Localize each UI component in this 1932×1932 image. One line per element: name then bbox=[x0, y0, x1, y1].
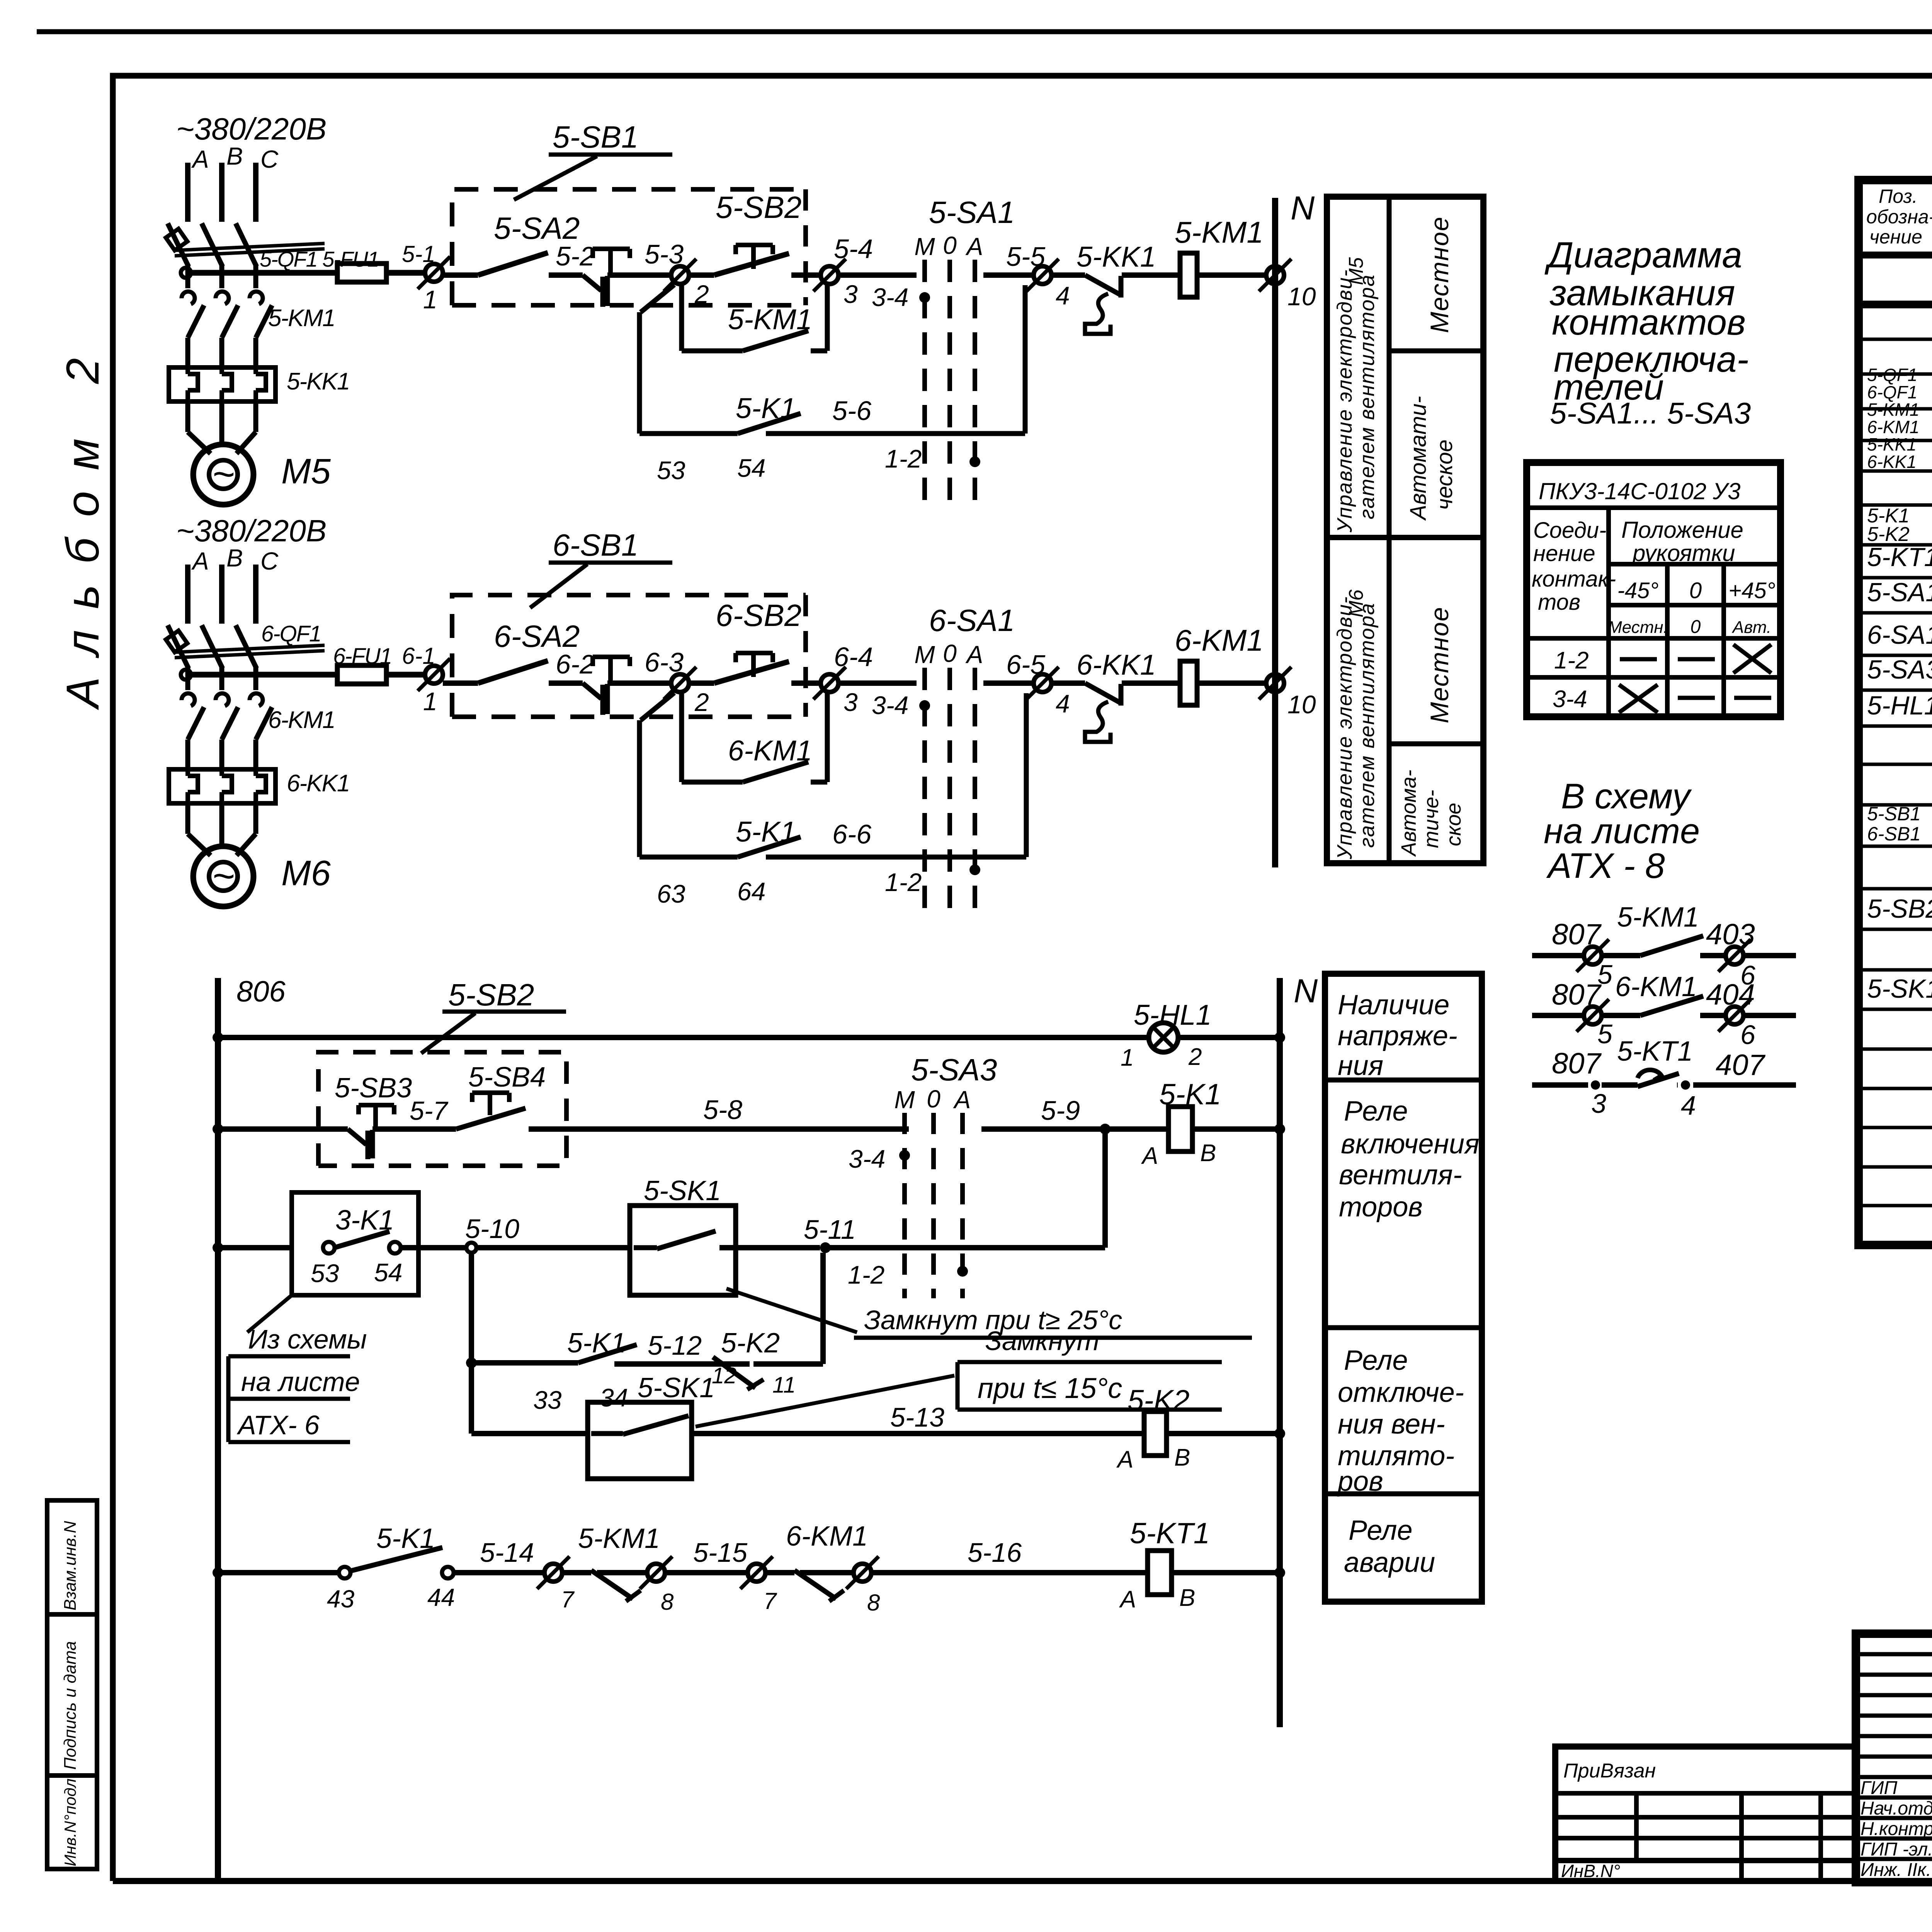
svg-text:4: 4 bbox=[1056, 281, 1070, 310]
svg-text:5-6: 5-6 bbox=[832, 396, 871, 426]
svg-text:ния вен-: ния вен- bbox=[1338, 1409, 1445, 1440]
svg-text:7: 7 bbox=[561, 1587, 575, 1612]
svg-text:А: А bbox=[953, 1086, 971, 1114]
svg-text:6-2: 6-2 bbox=[556, 649, 595, 679]
svg-text:Альбом 2: Альбом 2 bbox=[57, 337, 109, 710]
svg-text:5-SB2: 5-SB2 bbox=[1867, 894, 1932, 923]
svg-text:М5: М5 bbox=[1345, 257, 1367, 285]
svg-text:Реле: Реле bbox=[1344, 1096, 1408, 1127]
svg-text:403: 403 bbox=[1706, 918, 1755, 951]
svg-text:ИнВ.N°: ИнВ.N° bbox=[1561, 1861, 1620, 1881]
svg-text:5-KK1: 5-KK1 bbox=[1077, 241, 1156, 273]
svg-text:2: 2 bbox=[694, 280, 709, 308]
svg-text:6-QF1: 6-QF1 bbox=[261, 621, 321, 646]
svg-text:Автома-: Автома- bbox=[1397, 770, 1420, 857]
interlock contact 5-K1 (53-54) bbox=[641, 285, 674, 312]
svg-text:3-4: 3-4 bbox=[849, 1145, 885, 1173]
svg-text:10: 10 bbox=[1287, 282, 1316, 311]
svg-text:Реле: Реле bbox=[1344, 1345, 1408, 1376]
control post 6-SB1 enclosure (dashed) bbox=[452, 595, 806, 717]
svg-text:5-SA1... 5-SA3: 5-SA1... 5-SA3 bbox=[1550, 396, 1751, 430]
svg-text:5-7: 5-7 bbox=[410, 1096, 448, 1126]
svg-text:33: 33 bbox=[533, 1386, 562, 1414]
svg-text:рукоятки: рукоятки bbox=[1632, 540, 1735, 566]
svg-text:гателем вентилятора: гателем вентилятора bbox=[1355, 274, 1379, 519]
remote contact 3-K1 (from sheet ATX-6) bbox=[292, 1192, 418, 1295]
svg-text:Поз.: Поз. bbox=[1879, 185, 1918, 207]
svg-text:8: 8 bbox=[867, 1590, 880, 1616]
svg-text:5-12: 5-12 bbox=[648, 1330, 702, 1361]
svg-text:5-8: 5-8 bbox=[703, 1095, 742, 1125]
header row bbox=[1859, 252, 1932, 259]
svg-text:5-13: 5-13 bbox=[890, 1402, 944, 1432]
sheet top border bbox=[37, 29, 1932, 34]
svg-text:6-SA1,: 6-SA1, bbox=[1867, 620, 1932, 650]
annotation 'Замкнут при t<=15C' bbox=[696, 1376, 954, 1427]
svg-text:7: 7 bbox=[764, 1588, 777, 1614]
svg-text:N: N bbox=[1294, 973, 1318, 1010]
svg-text:Наличие: Наличие bbox=[1338, 990, 1449, 1020]
pushbutton 6-SB1 (NC) bbox=[583, 683, 601, 699]
svg-text:6-4: 6-4 bbox=[834, 642, 873, 672]
wire 6-3 bbox=[607, 680, 671, 686]
motor M5 bbox=[193, 444, 253, 505]
svg-text:Местное: Местное bbox=[1425, 606, 1454, 723]
wires to motor M6 bbox=[185, 803, 190, 834]
svg-text:53: 53 bbox=[657, 456, 685, 485]
svg-text:ГИП: ГИП bbox=[1861, 1778, 1897, 1798]
svg-text:торов: торов bbox=[1339, 1192, 1423, 1223]
svg-text:64: 64 bbox=[737, 877, 765, 906]
svg-text:5-KT1: 5-KT1 bbox=[1617, 1036, 1693, 1067]
svg-text:5-SK1: 5-SK1 bbox=[638, 1372, 715, 1403]
svg-text:11: 11 bbox=[772, 1372, 796, 1398]
svg-text:3: 3 bbox=[844, 688, 858, 716]
svg-text:6-KK1: 6-KK1 bbox=[1867, 452, 1917, 472]
node 4 bbox=[1034, 674, 1051, 692]
svg-text:тиче-: тиче- bbox=[1420, 790, 1443, 848]
svg-text:А: А bbox=[1116, 1446, 1133, 1473]
svg-text:5-KM1: 5-KM1 bbox=[1617, 902, 1699, 933]
wire 5-1 bbox=[386, 270, 425, 276]
svg-text:6-SB1: 6-SB1 bbox=[1867, 823, 1921, 845]
N bus (ladder) bbox=[1277, 978, 1283, 1727]
svg-text:ПКУ3-14С-0102 У3: ПКУ3-14С-0102 У3 bbox=[1539, 478, 1740, 504]
svg-text:В: В bbox=[226, 544, 243, 572]
svg-text:3-4: 3-4 bbox=[872, 283, 908, 311]
svg-text:Взам.инв.N: Взам.инв.N bbox=[61, 1521, 80, 1611]
circuit breaker 5-QF1 bbox=[168, 223, 189, 267]
node 3 bbox=[821, 674, 838, 692]
svg-text:5-11: 5-11 bbox=[804, 1214, 856, 1245]
svg-text:включения: включения bbox=[1341, 1129, 1480, 1160]
svg-text:6-KM1: 6-KM1 bbox=[268, 707, 335, 733]
svg-text:6-SA2: 6-SA2 bbox=[494, 619, 580, 653]
wire 5-3 bbox=[607, 272, 671, 278]
svg-text:5-K1: 5-K1 bbox=[736, 392, 796, 424]
svg-text:5-KM1: 5-KM1 bbox=[728, 303, 812, 335]
svg-text:~: ~ bbox=[212, 854, 235, 898]
svg-text:на листе: на листе bbox=[241, 1367, 360, 1397]
svg-text:1-2: 1-2 bbox=[1554, 647, 1589, 674]
parts table row lines bbox=[1859, 338, 1932, 341]
phase C wire bbox=[253, 163, 259, 222]
svg-text:вентиля-: вентиля- bbox=[1339, 1160, 1462, 1190]
svg-text:5-KM1: 5-KM1 bbox=[1175, 215, 1264, 249]
svg-text:54: 54 bbox=[374, 1258, 402, 1287]
interlock contact 5-K1 (63-64) bbox=[641, 693, 674, 720]
node 1 bbox=[425, 666, 443, 684]
control post 5-SB1 enclosure (dashed) bbox=[452, 189, 806, 305]
svg-text:5-KT1: 5-KT1 bbox=[1130, 1517, 1210, 1550]
svg-text:404: 404 bbox=[1706, 978, 1755, 1011]
svg-text:Замкнут: Замкнут bbox=[985, 1326, 1099, 1356]
svg-text:5-SK1: 5-SK1 bbox=[644, 1175, 721, 1206]
svg-text:6-KM1: 6-KM1 bbox=[728, 735, 812, 767]
svg-text:В: В bbox=[1174, 1444, 1190, 1471]
note box 'Из схемы на листе АТХ-6' bbox=[247, 1295, 292, 1332]
signature table row lines bbox=[1856, 1652, 1932, 1656]
svg-text:63: 63 bbox=[657, 879, 685, 908]
auxiliary contact 5-KM1 (self-hold) bbox=[679, 284, 684, 351]
svg-text:5-SB2: 5-SB2 bbox=[448, 978, 534, 1012]
svg-text:А: А bbox=[965, 233, 983, 260]
svg-text:Положение: Положение bbox=[1621, 517, 1743, 543]
svg-text:34: 34 bbox=[600, 1383, 628, 1412]
svg-text:1: 1 bbox=[423, 687, 437, 716]
svg-text:A: A bbox=[191, 145, 209, 173]
circuit breaker 6-QF1 bbox=[168, 625, 189, 668]
svg-text:5-4: 5-4 bbox=[834, 234, 873, 264]
svg-text:5-SA2: 5-SA2 bbox=[494, 211, 580, 245]
svg-text:1-2: 1-2 bbox=[848, 1260, 884, 1289]
feeder wire to fuse 5-FU1 bbox=[181, 268, 191, 278]
svg-text:2: 2 bbox=[1188, 1044, 1202, 1070]
svg-text:Авт.: Авт. bbox=[1731, 618, 1771, 637]
svg-text:M5: M5 bbox=[281, 452, 331, 491]
svg-text:5-SA3: 5-SA3 bbox=[911, 1053, 997, 1087]
svg-text:~: ~ bbox=[212, 452, 235, 496]
svg-text:Подпись и дата: Подпись и дата bbox=[61, 1641, 80, 1770]
table outer border bbox=[1859, 180, 1932, 1245]
svg-text:1-2: 1-2 bbox=[885, 868, 922, 896]
rung 2: relay 5-K1 pick-up bbox=[213, 1124, 223, 1134]
svg-text:А: А bbox=[1141, 1143, 1158, 1169]
svg-text:43: 43 bbox=[327, 1585, 355, 1613]
svg-text:Соеди-: Соеди- bbox=[1533, 518, 1606, 543]
margin box 'Подпись и дата' bbox=[47, 1614, 97, 1776]
phase A wire bbox=[185, 163, 190, 222]
svg-text:1: 1 bbox=[423, 285, 437, 314]
svg-text:аварии: аварии bbox=[1344, 1547, 1435, 1578]
svg-text:М: М bbox=[914, 641, 935, 668]
svg-text:806: 806 bbox=[236, 975, 286, 1008]
svg-text:5-SA1: 5-SA1 bbox=[929, 195, 1015, 230]
node 2 bbox=[671, 266, 689, 284]
svg-text:Реле: Реле bbox=[1349, 1515, 1413, 1546]
svg-text:А: А bbox=[965, 641, 983, 668]
svg-text:Нач.отд.: Нач.отд. bbox=[1861, 1798, 1932, 1819]
svg-text:4: 4 bbox=[1056, 689, 1070, 718]
phase B wire bbox=[219, 163, 224, 222]
svg-text:1: 1 bbox=[1121, 1044, 1134, 1071]
svg-text:АТХ - 8: АТХ - 8 bbox=[1546, 846, 1665, 886]
svg-text:6-KM1: 6-KM1 bbox=[1175, 623, 1264, 657]
node 4 bbox=[1034, 266, 1051, 284]
svg-text:6-SB1: 6-SB1 bbox=[553, 528, 638, 562]
svg-text:5-KM1: 5-KM1 bbox=[578, 1523, 660, 1554]
svg-text:5-10: 5-10 bbox=[465, 1214, 519, 1244]
svg-text:напряже-: напряже- bbox=[1338, 1020, 1458, 1051]
margin box 'Инв.N подл.' bbox=[47, 1776, 97, 1869]
auxiliary contact 6-KM1 (self-hold) bbox=[679, 692, 684, 782]
wires to motor M5 bbox=[185, 401, 190, 432]
svg-text:5-16: 5-16 bbox=[968, 1537, 1022, 1568]
svg-text:0: 0 bbox=[927, 1085, 940, 1113]
margin box 'Взам.инв.N' bbox=[47, 1500, 97, 1614]
svg-text:N: N bbox=[1291, 190, 1315, 227]
svg-text:3-4: 3-4 bbox=[872, 691, 908, 719]
svg-text:6-KM1: 6-KM1 bbox=[1615, 971, 1697, 1002]
table grid bbox=[1606, 508, 1611, 717]
svg-text:5-HL1: 5-HL1 bbox=[1867, 691, 1932, 720]
svg-text:ПриВязан: ПриВязан bbox=[1563, 1760, 1656, 1782]
svg-text:8: 8 bbox=[661, 1589, 674, 1615]
svg-text:В: В bbox=[1179, 1585, 1195, 1611]
svg-text:6-SA1: 6-SA1 bbox=[929, 603, 1015, 638]
svg-text:Управление электродви-: Управление электродви- bbox=[1333, 596, 1356, 860]
phase C wire bbox=[253, 565, 259, 624]
svg-text:5-K1: 5-K1 bbox=[736, 816, 796, 848]
annotation 'Замкнут при t>=25C' bbox=[726, 1289, 857, 1332]
svg-text:Местн.: Местн. bbox=[1608, 618, 1668, 637]
svg-text:нение: нение bbox=[1533, 541, 1595, 566]
svg-text:5-SB4: 5-SB4 bbox=[468, 1062, 546, 1093]
bus 806 bbox=[215, 978, 221, 1881]
svg-text:407: 407 bbox=[1716, 1049, 1766, 1082]
svg-text:А: А bbox=[1119, 1586, 1136, 1613]
svg-text:5-KK1: 5-KK1 bbox=[287, 368, 349, 395]
rung 5: alarm relay 5-KT1 bbox=[213, 1567, 223, 1578]
svg-text:6-6: 6-6 bbox=[832, 819, 871, 849]
svg-text:+45°: +45° bbox=[1728, 578, 1776, 603]
svg-text:12: 12 bbox=[712, 1363, 737, 1388]
svg-text:3: 3 bbox=[844, 280, 858, 308]
svg-text:ское: ское bbox=[1442, 803, 1465, 846]
svg-text:4: 4 bbox=[1681, 1090, 1696, 1121]
svg-text:АТХ- 6: АТХ- 6 bbox=[236, 1410, 320, 1440]
contactor main contacts 5-KM1 bbox=[182, 292, 195, 304]
svg-text:0: 0 bbox=[1690, 617, 1701, 637]
svg-text:1-2: 1-2 bbox=[885, 444, 922, 473]
svg-text:M6: M6 bbox=[281, 854, 331, 893]
svg-text:чение: чение bbox=[1869, 226, 1922, 248]
svg-text:6: 6 bbox=[1740, 1020, 1755, 1050]
svg-text:807: 807 bbox=[1552, 1047, 1602, 1080]
svg-text:Инв.N°подл.: Инв.N°подл. bbox=[61, 1774, 79, 1866]
svg-text:контак-: контак- bbox=[1532, 566, 1616, 592]
svg-text:~380/220В: ~380/220В bbox=[176, 112, 327, 146]
svg-text:53: 53 bbox=[311, 1259, 339, 1287]
svg-text:М: М bbox=[894, 1086, 915, 1114]
svg-text:5-QF1 5-FU1: 5-QF1 5-FU1 bbox=[260, 247, 379, 271]
svg-text:ния: ния bbox=[1338, 1050, 1383, 1081]
svg-text:5-SA3: 5-SA3 bbox=[1867, 655, 1932, 684]
phase A wire bbox=[185, 565, 190, 624]
svg-text:5-K2: 5-K2 bbox=[721, 1328, 780, 1359]
svg-text:обозна-: обозна- bbox=[1866, 206, 1932, 228]
svg-text:гателем вентилятора: гателем вентилятора bbox=[1355, 602, 1379, 848]
panel frame bbox=[1327, 197, 1483, 863]
feeder wire to fuse 6-FU1 bbox=[181, 670, 191, 680]
contactor main contacts 6-KM1 bbox=[182, 694, 195, 706]
svg-text:2: 2 bbox=[694, 688, 709, 716]
svg-text:~380/220В: ~380/220В bbox=[176, 514, 327, 548]
svg-text:5-9: 5-9 bbox=[1041, 1095, 1080, 1126]
svg-text:Управление электродви-: Управление электродви- bbox=[1333, 269, 1356, 533]
svg-text:5-SB3: 5-SB3 bbox=[335, 1073, 412, 1104]
thermal relay 5-KK1 bbox=[169, 367, 276, 401]
svg-text:A: A bbox=[191, 547, 209, 575]
svg-text:5-K1: 5-K1 bbox=[567, 1328, 626, 1359]
svg-text:5-SB2: 5-SB2 bbox=[716, 190, 801, 224]
phase B wire bbox=[219, 565, 224, 624]
svg-text:Инж. IIк.: Инж. IIк. bbox=[1861, 1860, 1931, 1880]
svg-text:0: 0 bbox=[1689, 578, 1702, 603]
svg-text:6-SB2: 6-SB2 bbox=[716, 598, 801, 633]
svg-text:Автомати-: Автомати- bbox=[1406, 396, 1431, 521]
svg-text:5-KM1: 5-KM1 bbox=[268, 305, 335, 332]
svg-text:44: 44 bbox=[427, 1583, 455, 1611]
svg-text:ров: ров bbox=[1337, 1466, 1383, 1497]
svg-text:М: М bbox=[914, 233, 935, 260]
wire 6-1 bbox=[386, 672, 425, 678]
svg-text:6-KM1: 6-KM1 bbox=[786, 1521, 868, 1552]
svg-text:C: C bbox=[260, 547, 279, 575]
svg-text:В: В bbox=[1200, 1140, 1216, 1167]
svg-text:М6: М6 bbox=[1345, 590, 1367, 617]
vertical drop to 5-SK1 low-temp contact bbox=[469, 1363, 474, 1434]
pushbutton 5-SB1 (NC) bbox=[583, 275, 601, 291]
svg-text:ГИП -эл.: ГИП -эл. bbox=[1861, 1839, 1932, 1860]
svg-text:5-SB1: 5-SB1 bbox=[553, 120, 638, 154]
svg-text:ческое: ческое bbox=[1432, 439, 1457, 510]
svg-text:на листе: на листе bbox=[1544, 811, 1700, 851]
rung 1: lamp 5-HL1 bbox=[213, 1032, 223, 1043]
svg-text:Местное: Местное bbox=[1425, 216, 1454, 333]
svg-text:10: 10 bbox=[1287, 690, 1316, 719]
wire to N, node 10 bbox=[1197, 272, 1267, 278]
node 3 bbox=[821, 266, 838, 284]
svg-text:6-KK1: 6-KK1 bbox=[1077, 649, 1156, 681]
svg-text:Диаграмма: Диаграмма bbox=[1544, 235, 1742, 275]
wire up to relay 5-K1 rung bbox=[1102, 1129, 1108, 1248]
svg-text:Н.контр.: Н.контр. bbox=[1861, 1819, 1932, 1839]
svg-text:-45°: -45° bbox=[1617, 578, 1658, 603]
svg-text:В: В bbox=[226, 142, 243, 170]
svg-text:при t≤ 15°c: при t≤ 15°c bbox=[978, 1372, 1122, 1404]
svg-text:В схему: В схему bbox=[1561, 777, 1692, 816]
control post 5-SB2 enclosure (dashed) bbox=[318, 1052, 566, 1166]
svg-text:C: C bbox=[260, 145, 279, 173]
rung 4: relay 5-K2 (stop at low temperature) bbox=[469, 1253, 474, 1363]
svg-text:5-14: 5-14 bbox=[480, 1537, 534, 1568]
svg-text:5-SA1,: 5-SA1, bbox=[1867, 578, 1932, 607]
svg-text:6-KK1: 6-KK1 bbox=[287, 770, 349, 797]
svg-text:контактов: контактов bbox=[1552, 302, 1746, 342]
svg-text:отключе-: отключе- bbox=[1338, 1377, 1464, 1408]
svg-text:5-15: 5-15 bbox=[693, 1537, 748, 1568]
svg-text:5-SB1: 5-SB1 bbox=[1867, 803, 1921, 825]
svg-text:Из схемы: Из схемы bbox=[248, 1324, 367, 1354]
svg-text:5-SK1: 5-SK1 bbox=[1867, 974, 1932, 1003]
svg-text:0: 0 bbox=[943, 231, 957, 259]
fuse 5-FU1 bbox=[337, 264, 386, 282]
svg-text:3: 3 bbox=[1591, 1088, 1606, 1119]
rung 3: temperature start circuit bbox=[213, 1242, 223, 1253]
svg-text:54: 54 bbox=[737, 454, 765, 482]
svg-text:5-KT1: 5-KT1 bbox=[1867, 543, 1932, 572]
svg-text:5: 5 bbox=[1597, 1019, 1613, 1049]
svg-text:0: 0 bbox=[943, 639, 957, 667]
node 1 bbox=[425, 264, 443, 282]
N bus (top chains) bbox=[1272, 198, 1278, 867]
title block outer border bbox=[1856, 1634, 1932, 1882]
thermal relay 6-KK1 bbox=[169, 769, 276, 803]
node 2 bbox=[671, 674, 689, 692]
svg-text:3-4: 3-4 bbox=[1553, 686, 1587, 713]
motor M6 bbox=[193, 846, 253, 906]
svg-text:5-2: 5-2 bbox=[556, 241, 595, 271]
fuse 6-FU1 bbox=[337, 665, 386, 684]
wire to N, node 10 bbox=[1197, 680, 1267, 686]
svg-text:тов: тов bbox=[1538, 590, 1580, 615]
